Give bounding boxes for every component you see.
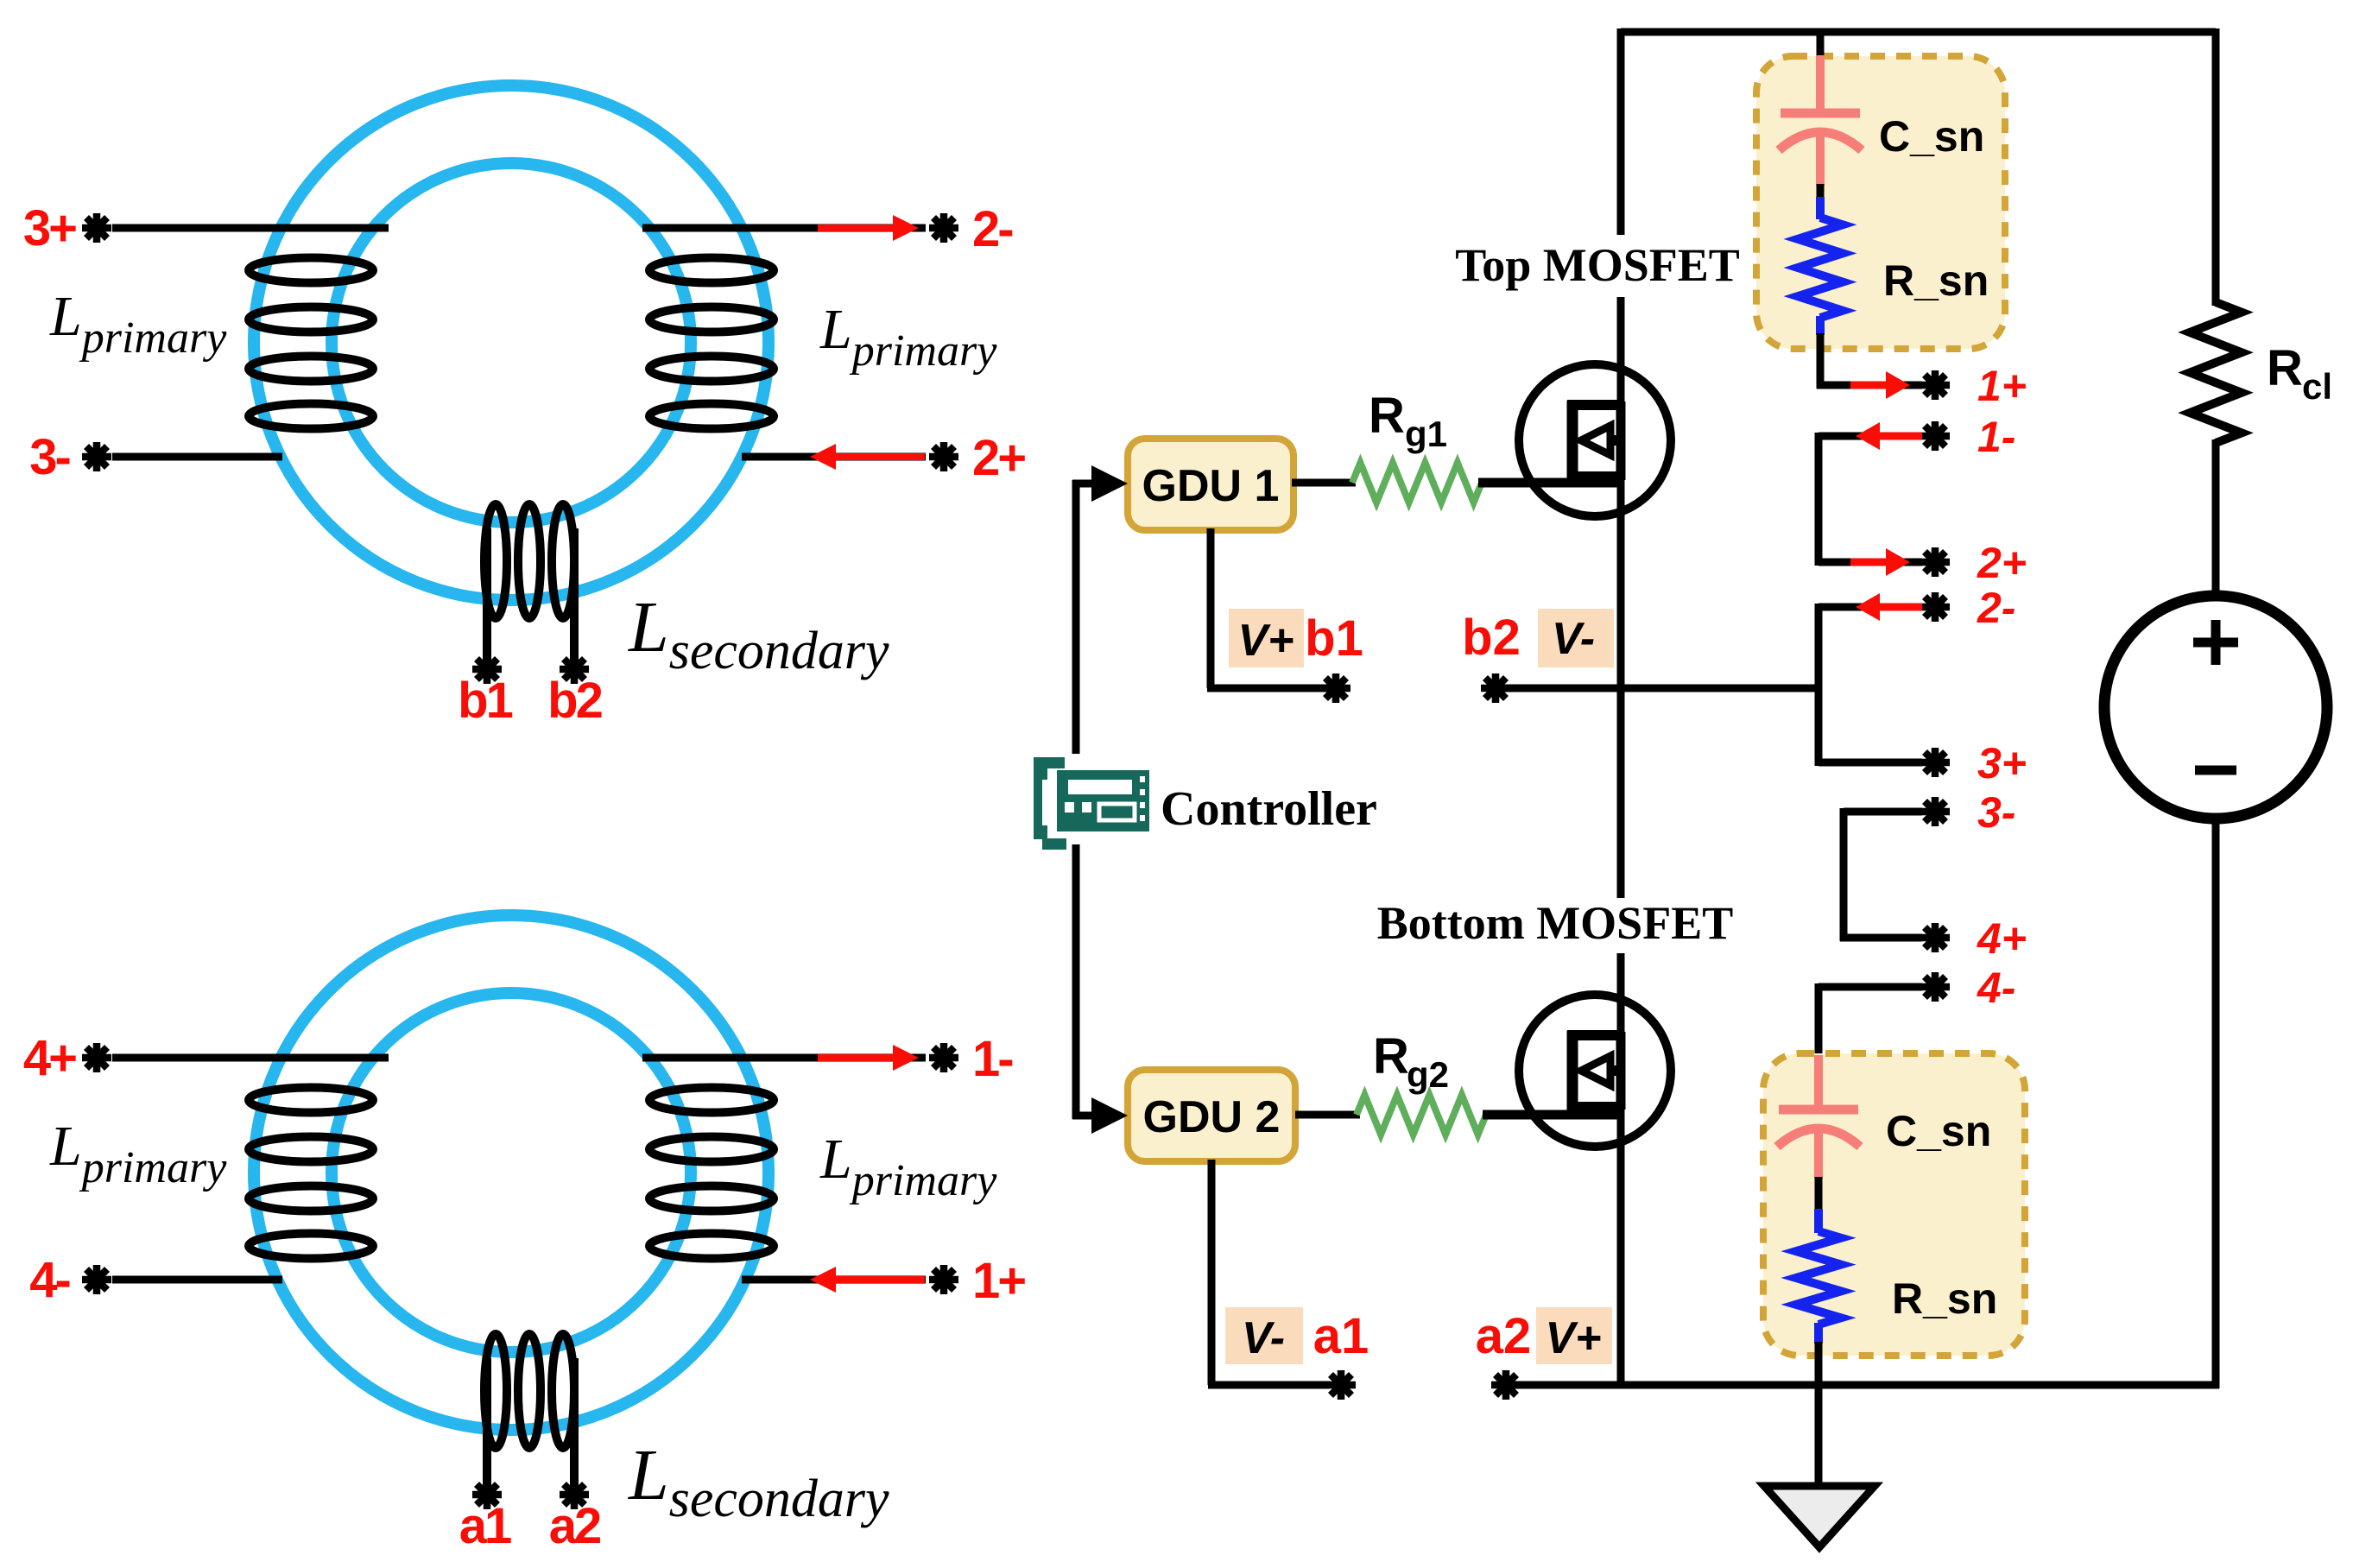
- wire bottom rail a2 to source: [1506, 1381, 2219, 1389]
- svg-text:cl: cl: [2302, 366, 2332, 407]
- label 2+ right: [1977, 539, 2027, 587]
- bottom MOSFET Q2 body-diode arrow: [1581, 1056, 1621, 1085]
- V- highlight bottom: [1225, 1307, 1303, 1364]
- wire snubber1 output to node 1+: [1817, 349, 1922, 389]
- svg-text:2+: 2+: [1977, 539, 2027, 587]
- label 4+ right: [1977, 914, 2027, 963]
- svg-text:3+: 3+: [1977, 739, 2027, 787]
- transistor bottom MOSFET Q2 body circle: [1519, 995, 1671, 1147]
- bottom MOSFET Q2 source stub: [1567, 1102, 1621, 1112]
- wire mid node to bottom MOSFET drain: [1617, 953, 1625, 1039]
- label a2 bottom: [1476, 1308, 1532, 1364]
- label L_primary right of transformer T2: [819, 1128, 997, 1205]
- inductor L_secondary winding of transformer T1: [484, 504, 574, 618]
- label 4-: [29, 1252, 69, 1308]
- label R_g1: [1369, 388, 1447, 454]
- node 3-: [1920, 797, 1950, 826]
- label b1: [458, 673, 512, 729]
- toroid core outer ring of transformer T2: [254, 915, 769, 1430]
- label R_g2: [1373, 1028, 1449, 1095]
- inductor L_primary left winding of transformer T2: [249, 1088, 373, 1259]
- svg-text:2+: 2+: [972, 430, 1025, 486]
- wire source of bottom MOSFET to bottom rail: [1617, 1106, 1625, 1385]
- wire 2+ lead: [742, 453, 926, 461]
- wire GDU 1 to R_g1: [1292, 479, 1356, 487]
- svg-text:C_sn: C_sn: [1886, 1107, 1991, 1155]
- inductor L_secondary winding of transformer T2: [484, 1334, 574, 1448]
- wire 4- lead: [112, 1276, 282, 1284]
- wire R_sn 2 to ground: [1815, 1342, 1823, 1486]
- wire R_g2 to gate of Q2: [1483, 1110, 1621, 1120]
- node 3+: [1920, 748, 1950, 777]
- wire controller to GDU 1: [1072, 480, 1093, 754]
- svg-text:V+: V+: [1545, 1313, 1601, 1363]
- snubber 2 box: [1763, 1053, 2025, 1356]
- wire 1+ lead: [742, 1276, 926, 1284]
- current arrow out of 2-: [1856, 593, 1922, 621]
- snubber 1 box: [1756, 56, 2005, 349]
- svg-text:g1: g1: [1405, 414, 1447, 454]
- wire top rail (drain bus): [1621, 28, 2216, 36]
- node b1 terminal: [1321, 673, 1350, 703]
- toroid core outer ring of transformer T1: [254, 85, 769, 600]
- label R_sn 1: [1883, 256, 1989, 305]
- node 1-: [929, 1043, 958, 1072]
- label 2- right: [1977, 584, 2015, 632]
- svg-text:R: R: [1369, 388, 1405, 444]
- resistor R_sn 1: [1798, 197, 1843, 335]
- label 2-: [972, 201, 1012, 257]
- GDU 2 box: [1128, 1070, 1295, 1161]
- top MOSFET Q1 body-diode arrow: [1581, 426, 1621, 455]
- wire 4+ lead: [112, 1054, 389, 1062]
- top MOSFET Q1 drain stub: [1567, 400, 1621, 410]
- svg-text:C_sn: C_sn: [1879, 112, 1984, 161]
- wire b2 lead: [570, 528, 579, 669]
- label V+ top: [1237, 616, 1294, 666]
- svg-text:b2: b2: [1462, 610, 1521, 666]
- node 4-: [82, 1265, 111, 1294]
- label 3-: [29, 429, 69, 485]
- node b1: [472, 654, 502, 684]
- label L_primary left of transformer T2: [49, 1115, 227, 1192]
- label 1+ right: [1977, 362, 2027, 410]
- wire top rail to C_sn 1: [1817, 32, 1825, 60]
- capacitor C_sn 2: [1777, 1055, 1860, 1179]
- node a1 terminal: [1326, 1370, 1356, 1400]
- node 1+: [929, 1265, 958, 1294]
- wire bottom MOSFET channel: [1616, 1032, 1626, 1110]
- svg-text:V-: V-: [1242, 1313, 1285, 1363]
- ground symbol: [1764, 1486, 1875, 1547]
- svg-text:a1: a1: [1313, 1308, 1369, 1364]
- wire C_sn 2 to R_sn 2: [1815, 1177, 1823, 1212]
- label L_primary left of transformer T1: [49, 285, 227, 363]
- wire node 4- to snubber 2: [1819, 983, 1922, 1060]
- svg-text:Bottom MOSFET: Bottom MOSFET: [1377, 897, 1734, 949]
- wire drain of top MOSFET: [1617, 28, 1625, 406]
- current arrow out of 1-: [1856, 422, 1922, 450]
- svg-text:3+: 3+: [23, 200, 76, 256]
- label 4- right: [1977, 964, 2015, 1012]
- wire voltage source to bottom rail: [2212, 819, 2220, 1388]
- node 1-: [1920, 421, 1950, 451]
- current arrow out of 2+: [810, 444, 925, 470]
- svg-text:2-: 2-: [972, 201, 1012, 257]
- node 4+: [82, 1043, 111, 1072]
- label L_secondary of transformer T1: [628, 587, 889, 680]
- resistor R_cl: [2190, 302, 2242, 443]
- label 2+: [972, 430, 1025, 486]
- label 1-: [972, 1031, 1012, 1087]
- node 4-: [1920, 972, 1950, 1002]
- label a1 bottom: [1313, 1308, 1369, 1364]
- wire node 1- to node 2+: [1819, 433, 1922, 566]
- resistor R_g2: [1357, 1095, 1486, 1135]
- GDU 1 box: [1128, 439, 1294, 530]
- wire R_cl to voltage source: [2212, 439, 2220, 599]
- wire GDU 1 to node b1: [1207, 528, 1330, 688]
- toroid core inner ring of transformer T2: [332, 993, 691, 1352]
- svg-text:b1: b1: [1305, 610, 1363, 667]
- label Top MOSFET: [1455, 239, 1740, 291]
- node 2-: [1920, 592, 1950, 622]
- node a2: [560, 1480, 589, 1509]
- wire top rail to R_cl: [2212, 28, 2220, 306]
- bottom MOSFET Q2 gate bar: [1567, 1031, 1578, 1112]
- label b1 top: [1305, 610, 1363, 667]
- wire source of top MOSFET to mid rail: [1617, 476, 1625, 898]
- inductor L_primary left winding of transformer T1: [249, 258, 373, 429]
- controller icon: [1034, 757, 1149, 850]
- label C_sn 2: [1886, 1107, 1991, 1155]
- svg-text:1+: 1+: [972, 1253, 1025, 1309]
- label L_secondary of transformer T2: [628, 1435, 889, 1528]
- node a1: [472, 1480, 502, 1509]
- svg-text:GDU 2: GDU 2: [1143, 1092, 1281, 1142]
- label a2: [549, 1498, 600, 1554]
- wire a2 lead: [570, 1358, 579, 1495]
- wire 2- lead: [642, 224, 926, 232]
- wire b1 lead: [483, 528, 491, 669]
- wire top MOSFET channel: [1616, 401, 1626, 480]
- label R_cl: [2267, 340, 2332, 407]
- svg-text:1-: 1-: [1977, 413, 2015, 461]
- top MOSFET Q1 gate bar: [1567, 401, 1578, 482]
- label V- top: [1552, 614, 1595, 664]
- svg-text:1+: 1+: [1977, 362, 2027, 410]
- node 2+: [929, 442, 958, 471]
- svg-text:R: R: [2267, 340, 2303, 396]
- node 2+: [1920, 547, 1950, 577]
- svg-text:R_sn: R_sn: [1883, 256, 1989, 305]
- V+ highlight top: [1229, 609, 1304, 667]
- wire node 3- to node 4+: [1840, 808, 1922, 941]
- svg-text:4-: 4-: [29, 1252, 69, 1308]
- label 3+: [23, 200, 76, 256]
- svg-text:4+: 4+: [23, 1030, 76, 1086]
- node 1+: [1920, 370, 1950, 400]
- arrow into GDU 2: [1091, 1097, 1128, 1134]
- inductor L_primary right winding of transformer T2: [649, 1088, 774, 1259]
- node 2-: [929, 213, 958, 243]
- label V+ bottom: [1545, 1313, 1601, 1363]
- svg-text:b2: b2: [547, 673, 601, 729]
- label 4+: [23, 1030, 76, 1086]
- svg-text:V-: V-: [1552, 614, 1595, 664]
- current arrow out of 1+: [810, 1267, 925, 1293]
- wire 1- lead: [642, 1054, 926, 1062]
- wire 3- lead: [112, 453, 282, 461]
- node b2 terminal: [1481, 673, 1510, 703]
- svg-text:a2: a2: [1476, 1308, 1532, 1364]
- node 3-: [82, 442, 111, 471]
- label 3+ right: [1977, 739, 2027, 787]
- svg-text:Top MOSFET: Top MOSFET: [1455, 239, 1740, 291]
- current arrow into 2-: [818, 215, 919, 241]
- current arrow into 1-: [818, 1045, 919, 1071]
- top MOSFET Q1 source stub: [1567, 471, 1621, 482]
- V+ highlight bottom: [1536, 1307, 1612, 1364]
- label V- bottom: [1242, 1313, 1285, 1363]
- capacitor C_sn 1: [1779, 55, 1862, 186]
- wire controller to GDU 2: [1072, 844, 1093, 1119]
- svg-text:3-: 3-: [1977, 788, 2015, 837]
- label b2: [547, 673, 601, 729]
- wire node 2- to source rail junction to node 3+: [1819, 604, 1922, 766]
- resistor R_sn 2: [1796, 1209, 1841, 1344]
- voltage source V1: [2104, 596, 2327, 819]
- wire a1 lead: [483, 1358, 491, 1495]
- transistor top MOSFET Q1 body circle: [1519, 364, 1671, 516]
- bottom MOSFET Q2 drain stub: [1567, 1030, 1621, 1040]
- svg-text:V+: V+: [1237, 616, 1294, 666]
- label GDU 2: [1143, 1092, 1281, 1142]
- label C_sn 1: [1879, 112, 1984, 161]
- svg-text:a1: a1: [459, 1498, 511, 1554]
- svg-text:R_sn: R_sn: [1892, 1274, 1997, 1323]
- V- highlight top: [1538, 609, 1614, 667]
- label Controller: [1161, 782, 1377, 836]
- wire R_g1 to gate of Q1: [1478, 478, 1621, 488]
- node 3+: [82, 213, 111, 243]
- label L_primary right of transformer T1: [819, 298, 997, 376]
- wire GDU 2 to node a1: [1208, 1160, 1330, 1385]
- node b2: [560, 654, 589, 684]
- svg-text:4+: 4+: [1977, 914, 2027, 963]
- svg-text:g2: g2: [1407, 1054, 1449, 1095]
- node a2 terminal: [1491, 1370, 1521, 1400]
- wire 3+ lead: [112, 224, 389, 232]
- svg-text:1-: 1-: [972, 1031, 1012, 1087]
- svg-text:R: R: [1373, 1028, 1409, 1084]
- current arrow into 1+: [1850, 371, 1910, 399]
- svg-text:4-: 4-: [1977, 964, 2015, 1012]
- current arrow into 2+: [1850, 548, 1910, 576]
- arrow into GDU 1: [1091, 465, 1128, 502]
- svg-text:Controller: Controller: [1161, 782, 1377, 836]
- label Bottom MOSFET: [1377, 897, 1734, 949]
- toroid core inner ring of transformer T1: [332, 163, 691, 522]
- wire C_sn 1 to R_sn 1: [1817, 184, 1825, 200]
- label 1+: [972, 1253, 1025, 1309]
- label b2 top: [1462, 610, 1521, 666]
- label 3- right: [1977, 788, 2015, 837]
- inductor L_primary right winding of transformer T1: [649, 258, 774, 429]
- wire b2 to source rail of Q1: [1496, 685, 1817, 692]
- label GDU 1: [1142, 461, 1280, 511]
- label R_sn 2: [1892, 1274, 1997, 1323]
- wire GDU 2 to R_g2: [1295, 1111, 1360, 1119]
- label 1- right: [1977, 413, 2015, 461]
- wire R_sn 1 to box edge: [1817, 333, 1825, 354]
- node 4+: [1920, 923, 1950, 952]
- svg-text:b1: b1: [458, 673, 512, 729]
- svg-text:a2: a2: [549, 1498, 600, 1554]
- svg-text:GDU 1: GDU 1: [1142, 461, 1280, 511]
- label a1: [459, 1498, 511, 1554]
- resistor R_g1: [1352, 463, 1482, 503]
- svg-text:2-: 2-: [1977, 584, 2015, 632]
- svg-text:3-: 3-: [29, 429, 69, 485]
